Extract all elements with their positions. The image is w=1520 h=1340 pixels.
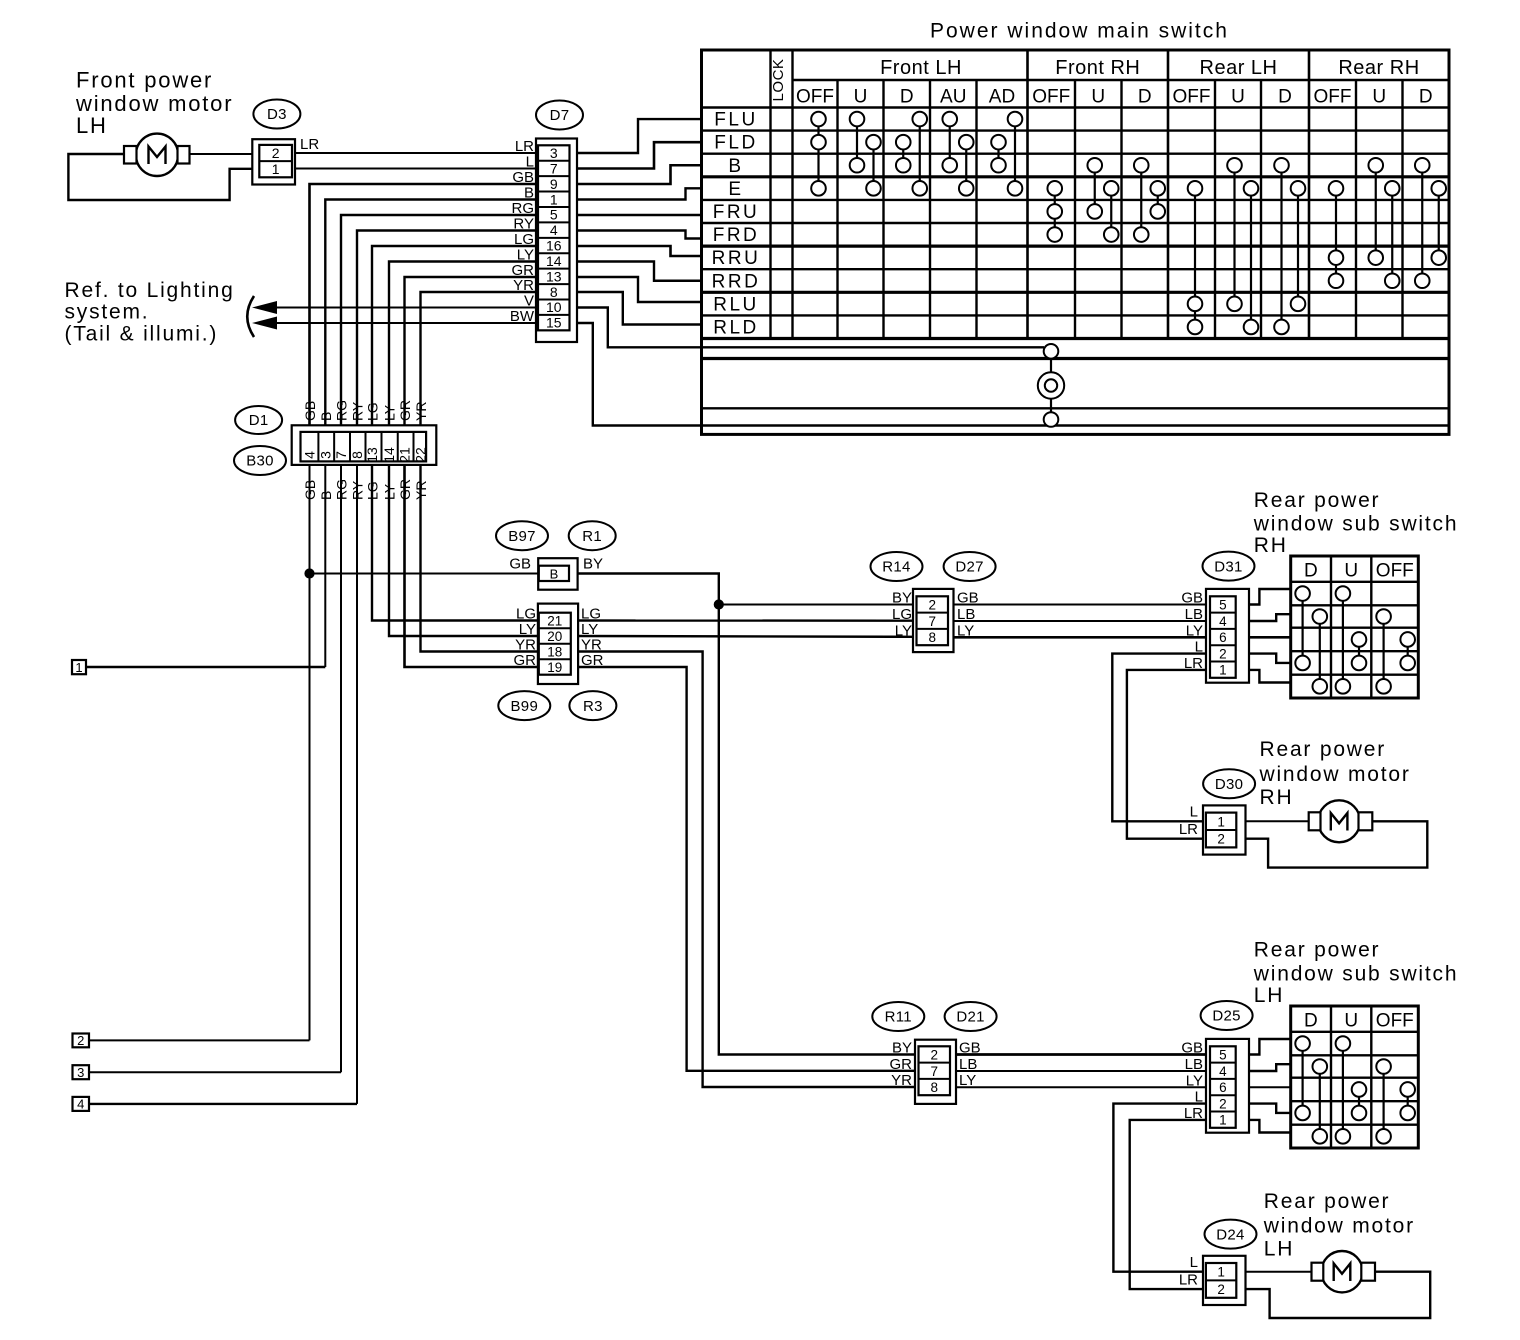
connector B99/R3 oval labels (498, 691, 550, 720)
wire LY D7 pin14 to RRD row (577, 262, 702, 281)
junction dot GB at B97 branch (305, 569, 314, 578)
wire GB R11 pin2 to D25 pin5 (956, 1053, 1206, 1056)
wire BY B97 to junction at R14 branch (578, 574, 915, 1055)
contacts Rear LH OFF (1194, 188, 1196, 327)
wire LB R11 pin7 to D25 pin4 (956, 1070, 1206, 1072)
svg-text:B: B (728, 156, 743, 177)
svg-text:YR: YR (581, 637, 602, 654)
wire LG D7 pin16 to RRU row (577, 246, 702, 256)
svg-text:1: 1 (1219, 663, 1227, 678)
connector B30 oval label (234, 446, 286, 475)
svg-text:FRD: FRD (713, 225, 760, 246)
connector D30 oval label (1203, 769, 1255, 798)
svg-text:D: D (900, 87, 914, 108)
svg-text:R11: R11 (885, 1009, 912, 1026)
svg-text:2: 2 (928, 597, 936, 612)
wire LR D25 pin1 to sub switch LH (1249, 1120, 1291, 1133)
contacts Front LH U left (856, 119, 858, 165)
svg-text:LY: LY (382, 404, 398, 421)
svg-text:D: D (1138, 87, 1152, 108)
wire terminal 3 to riser RG (89, 1071, 341, 1073)
svg-text:YR: YR (515, 637, 536, 654)
svg-text:LH: LH (1264, 1238, 1294, 1261)
svg-text:LR: LR (1184, 1105, 1203, 1122)
contacts Front RH U left (1094, 165, 1096, 211)
svg-text:2: 2 (272, 145, 280, 161)
svg-text:OFF: OFF (1173, 87, 1211, 108)
svg-text:8: 8 (930, 1080, 938, 1095)
svg-text:D: D (1304, 561, 1318, 582)
svg-text:BW: BW (510, 308, 535, 325)
svg-text:YR: YR (891, 1072, 912, 1089)
svg-text:GB: GB (957, 590, 979, 607)
svg-text:V: V (524, 293, 534, 310)
svg-text:LY: LY (517, 247, 534, 264)
svg-text:Rear LH: Rear LH (1200, 57, 1278, 79)
wire front motor to D3 pin2 (189, 153, 252, 155)
wire front motor return loop to D3 pin1 (68, 154, 252, 200)
contacts Front RH D left (1140, 165, 1142, 234)
svg-text:4: 4 (1219, 614, 1227, 629)
svg-text:L: L (1195, 639, 1203, 656)
connector D1/B30 body (292, 425, 437, 465)
svg-text:LY: LY (959, 1072, 976, 1089)
wire BW power rail inside table (702, 424, 1450, 426)
connector D31 oval label (1203, 552, 1255, 581)
svg-text:GR: GR (514, 652, 537, 669)
contacts rear RH U right (1358, 639, 1360, 663)
svg-text:RY: RY (513, 216, 534, 233)
svg-text:7: 7 (928, 614, 936, 629)
svg-text:GB: GB (1181, 1040, 1203, 1057)
connector D3 body (252, 139, 295, 184)
svg-text:B: B (524, 185, 534, 202)
main switch table outer frame (702, 50, 1450, 434)
svg-text:LY: LY (581, 621, 598, 638)
arrow to lighting system BW wire (252, 317, 277, 330)
svg-text:5: 5 (1219, 1047, 1227, 1062)
connector D7 oval label (536, 101, 583, 130)
contacts Front LH D right (919, 119, 921, 188)
contacts Rear LH U left (1233, 165, 1235, 304)
svg-text:GB: GB (959, 1040, 981, 1057)
terminal 1 box (72, 660, 86, 674)
svg-text:window sub switch: window sub switch (1253, 963, 1459, 986)
connector R14 body (913, 589, 954, 652)
svg-text:D: D (1278, 87, 1292, 108)
svg-text:D25: D25 (1212, 1008, 1240, 1025)
svg-text:3: 3 (317, 451, 333, 459)
svg-text:5: 5 (1219, 597, 1227, 612)
svg-text:U: U (1231, 87, 1245, 108)
svg-text:GR: GR (890, 1056, 913, 1073)
contacts Front RH U right (1110, 188, 1112, 234)
wire L D3 pin1 to D7 pin7 (295, 168, 536, 170)
svg-text:13: 13 (364, 447, 380, 463)
connector D31 body (1206, 589, 1249, 683)
svg-text:1: 1 (550, 191, 558, 207)
svg-text:AU: AU (940, 87, 966, 108)
svg-text:LH: LH (76, 113, 108, 138)
svg-text:D24: D24 (1216, 1226, 1244, 1243)
svg-text:RG: RG (334, 479, 350, 500)
svg-text:2: 2 (1219, 646, 1227, 661)
contacts rear LH D right (1319, 1067, 1321, 1137)
wire BW D7 pin15 to power rail row (577, 323, 702, 426)
svg-text:14: 14 (381, 447, 397, 463)
svg-text:AD: AD (989, 87, 1015, 108)
svg-text:B: B (318, 412, 334, 421)
svg-text:6: 6 (1219, 1080, 1227, 1095)
svg-text:LY: LY (519, 621, 536, 638)
motor M rear RH (1318, 800, 1360, 842)
svg-text:OFF: OFF (796, 87, 834, 108)
lock switch contact chain (1050, 351, 1052, 425)
svg-text:GR: GR (397, 400, 413, 421)
svg-text:3: 3 (77, 1065, 84, 1080)
wire GB junction to B97 (310, 573, 539, 575)
svg-text:RH: RH (1260, 786, 1294, 809)
wire GB D25 pin5 to sub switch LH (1249, 1039, 1291, 1055)
contacts rear LH U left (1342, 1044, 1344, 1137)
contacts rear RH D right (1319, 617, 1321, 687)
svg-text:2: 2 (77, 1033, 84, 1048)
svg-text:RG: RG (334, 400, 350, 421)
wire L D24 pin1 to D25 pin2 (1113, 1104, 1206, 1272)
svg-text:B30: B30 (246, 453, 274, 470)
svg-text:16: 16 (546, 238, 562, 254)
svg-text:YR: YR (413, 402, 429, 421)
wire B D7 pin1 to E row (577, 188, 702, 199)
svg-text:3: 3 (550, 145, 558, 161)
svg-text:LB: LB (1185, 1056, 1203, 1073)
wire L D24 pin1 to motor LH (1246, 1271, 1312, 1273)
contacts Rear RH U right (1391, 188, 1393, 280)
svg-text:1: 1 (272, 161, 280, 177)
wire terminal 4 to riser RY (89, 1103, 357, 1105)
svg-text:GB: GB (1181, 590, 1203, 607)
wire GB D7 pin9 to D1 pin4 riser (310, 184, 537, 425)
contacts Rear LH D left (1280, 165, 1282, 327)
wire RG D7 pin5 to FRU row (577, 214, 702, 216)
svg-text:OFF: OFF (1314, 87, 1352, 108)
svg-text:8: 8 (550, 284, 558, 300)
svg-text:B: B (318, 491, 334, 500)
wire RG D7 pin5 to D1 pin7 riser (341, 215, 536, 425)
svg-text:Rear power: Rear power (1254, 939, 1381, 962)
wire terminal 1 to riser B (86, 666, 325, 668)
wire LR D24 pin2 to D25 pin1 (1130, 1120, 1206, 1289)
svg-text:Ref. to Lighting: Ref. to Lighting (65, 279, 235, 302)
svg-text:GB: GB (512, 169, 534, 186)
wire L D25 pin2 to sub switch LH (1249, 1104, 1291, 1113)
lighting system brace (247, 296, 254, 337)
svg-text:21: 21 (397, 447, 413, 463)
riser RY from B30 pin8 to terminal 4 (356, 465, 358, 1104)
svg-text:RY: RY (350, 480, 366, 500)
wire GR B99 pin19 to R11 pin7 (578, 667, 915, 1071)
contacts Front RH D right (1157, 188, 1159, 211)
svg-text:LY: LY (382, 483, 398, 500)
svg-text:LY: LY (957, 622, 974, 639)
contacts Front RH OFF (1054, 188, 1056, 234)
wire LR D24 pin2 motor LH return loop (1246, 1272, 1431, 1318)
wire LY B99 pin20 to R14 pin8 (578, 635, 915, 638)
svg-text:4: 4 (302, 451, 318, 459)
svg-text:LG: LG (365, 481, 381, 500)
junction dot BY at R14 branch (714, 600, 723, 609)
connector D25 oval label (1201, 1001, 1253, 1030)
wire LY B30 pin14 to B99 pin20 (389, 465, 538, 636)
svg-text:RG: RG (512, 200, 535, 217)
wire YR B99 pin18 to R11 pin8 (578, 652, 915, 1088)
contacts Front LH AU right (965, 142, 967, 188)
wire LY D25 pin6 to sub switch LH (1249, 1086, 1291, 1088)
svg-text:D1: D1 (249, 412, 269, 429)
contacts rear LH U right (1358, 1089, 1360, 1113)
svg-text:9: 9 (550, 176, 558, 192)
svg-text:1: 1 (75, 660, 82, 675)
svg-text:RLU: RLU (713, 294, 759, 315)
svg-text:U: U (854, 87, 868, 108)
svg-text:BY: BY (583, 556, 603, 573)
wire LY R14 pin8 to D31 pin6 (954, 636, 1207, 639)
contacts rear LH D left (1301, 1044, 1303, 1113)
svg-text:LY: LY (895, 622, 912, 639)
svg-text:window motor: window motor (1263, 1215, 1415, 1238)
wire LB D31 pin4 to sub switch RH (1249, 614, 1291, 621)
svg-text:D: D (1419, 87, 1433, 108)
svg-text:18: 18 (547, 644, 562, 659)
svg-text:GB: GB (302, 480, 318, 500)
arrow to lighting system V wire (252, 301, 277, 314)
svg-text:LG: LG (892, 606, 912, 623)
svg-text:4: 4 (1219, 1064, 1227, 1079)
main switch table vertical grid lines (769, 50, 771, 339)
svg-text:LH: LH (1254, 984, 1284, 1007)
wire LG D7 pin16 to D1 pin13 riser (372, 246, 536, 425)
connector D24 oval label (1205, 1220, 1257, 1249)
svg-text:20: 20 (547, 629, 562, 644)
svg-text:LB: LB (957, 606, 975, 623)
wire LY R11 pin8 to D25 pin6 (956, 1086, 1206, 1088)
connector D3 oval label (253, 100, 300, 129)
svg-text:B99: B99 (511, 698, 539, 715)
wire LR D3 pin2 to D7 pin3 (295, 152, 536, 154)
wire GB D31 pin5 to sub switch RH (1249, 589, 1291, 605)
svg-text:19: 19 (547, 660, 562, 675)
svg-text:LR: LR (1179, 1272, 1198, 1289)
svg-text:1: 1 (1217, 814, 1225, 829)
wire GR B30 pin21 to B99 pin19 (405, 465, 539, 667)
svg-text:Rear power: Rear power (1254, 489, 1381, 512)
connector B99 body (538, 604, 578, 684)
wire LR D30 pin2 motor RH return loop (1246, 821, 1428, 867)
svg-text:RRD: RRD (712, 271, 761, 292)
wire V inside table to lock contact (702, 346, 1045, 348)
wire YR D7 pin8 to D1 pin22 riser (421, 292, 537, 425)
wire GR D7 pin13 to D1 pin21 riser (405, 277, 537, 425)
svg-text:Front LH: Front LH (880, 57, 962, 79)
svg-text:LG: LG (514, 231, 534, 248)
contacts rear LH OFF left (1382, 1067, 1384, 1137)
wire LY D31 pin6 to sub switch RH (1249, 636, 1291, 639)
svg-text:window motor: window motor (1259, 763, 1411, 786)
contacts rear RH OFF left (1382, 617, 1384, 687)
svg-text:GB: GB (302, 401, 318, 421)
svg-text:Front RH: Front RH (1055, 57, 1140, 79)
svg-text:Rear power: Rear power (1260, 738, 1387, 761)
wire terminal 2 to riser GB (89, 1039, 310, 1041)
terminal 4 box (73, 1097, 90, 1111)
svg-text:5: 5 (550, 207, 558, 223)
wire RY D7 pin4 to D1 pin8 riser (357, 231, 536, 426)
connector R14/D27 oval labels (871, 552, 923, 581)
svg-text:LR: LR (300, 136, 319, 153)
connector R11/D21 oval labels (872, 1002, 924, 1031)
svg-text:LB: LB (959, 1056, 977, 1073)
connector B97/R1 oval labels (496, 521, 548, 550)
connector D25 body (1206, 1039, 1249, 1133)
svg-text:8: 8 (928, 630, 936, 645)
wire LB R14 pin7 to D31 pin4 (954, 620, 1207, 622)
svg-text:7: 7 (930, 1064, 938, 1079)
svg-text:window sub switch: window sub switch (1253, 513, 1459, 536)
contacts Front LH U right (872, 142, 874, 188)
wire BY junction to R14 pin2 (719, 604, 915, 606)
svg-text:2: 2 (1219, 1096, 1227, 1111)
wire BW D7 pin15 to lighting system arrow (261, 322, 536, 324)
wire LR D31 pin1 to sub switch RH (1249, 670, 1291, 683)
contacts Front LH AU left (949, 119, 951, 165)
wire GR D7 pin13 to RLU row (577, 277, 702, 302)
svg-text:R1: R1 (582, 528, 602, 545)
connector D24 body (1203, 1256, 1246, 1305)
wire B D7 pin1 to D1 pin3 riser (325, 200, 536, 426)
svg-text:FRU: FRU (713, 202, 760, 223)
svg-text:GR: GR (397, 479, 413, 500)
svg-text:D30: D30 (1215, 776, 1243, 793)
contacts rear LH OFF right (1407, 1089, 1409, 1113)
wire V D7 pin10 to lock row (577, 308, 702, 348)
wire LR D7 pin3 to FLU row (577, 119, 702, 153)
connector R11 body (915, 1040, 956, 1104)
svg-text:U: U (1344, 1011, 1358, 1032)
svg-text:BY: BY (892, 590, 912, 607)
svg-text:D31: D31 (1214, 558, 1242, 575)
svg-text:4: 4 (77, 1097, 84, 1112)
svg-text:RRU: RRU (712, 248, 761, 269)
sub switch rear RH table grid (1291, 556, 1419, 698)
svg-text:7: 7 (333, 451, 349, 459)
svg-text:LOCK: LOCK (770, 59, 787, 102)
riser RG from B30 pin7 to terminal 3 (340, 465, 342, 1072)
contacts Rear LH D right (1297, 188, 1299, 304)
terminal 2 box (73, 1034, 90, 1048)
svg-text:OFF: OFF (1376, 1011, 1414, 1032)
motor M front LH (136, 134, 178, 176)
contacts rear RH D left (1301, 594, 1303, 663)
svg-text:D21: D21 (956, 1009, 984, 1026)
svg-text:6: 6 (1219, 630, 1227, 645)
wire L D7 pin7 to FLD row (577, 142, 702, 168)
svg-text:RH: RH (1254, 534, 1288, 557)
svg-text:(Tail & illumi.): (Tail & illumi.) (65, 323, 219, 346)
contacts Rear RH U left (1375, 165, 1377, 257)
svg-text:2: 2 (1217, 832, 1225, 847)
svg-text:YR: YR (413, 481, 429, 500)
sub switch rear LH table grid (1291, 1006, 1419, 1148)
contacts Rear LH U right (1250, 188, 1252, 327)
wire LG B30 pin13 to B99 pin21 (372, 465, 538, 621)
svg-text:RLD: RLD (713, 317, 759, 338)
contacts rear RH OFF right (1407, 639, 1409, 663)
contacts rear RH U left (1342, 594, 1344, 687)
contacts Rear RH D right (1438, 188, 1440, 257)
svg-text:D7: D7 (550, 107, 570, 124)
svg-text:2: 2 (1217, 1282, 1225, 1297)
wire GB R14 pin2 to D31 pin5 (954, 604, 1207, 606)
svg-text:Rear power: Rear power (1264, 1190, 1391, 1213)
wire LR D30 pin2 to D31 pin1 (1127, 670, 1206, 839)
svg-text:U: U (1344, 561, 1358, 582)
svg-text:Rear RH: Rear RH (1338, 57, 1419, 79)
wire LB D25 pin4 to sub switch LH (1249, 1064, 1291, 1071)
svg-text:15: 15 (546, 315, 562, 331)
svg-text:10: 10 (546, 299, 562, 315)
svg-text:7: 7 (550, 160, 558, 176)
wire L D31 pin2 to sub switch RH (1249, 654, 1291, 663)
svg-text:GR: GR (581, 652, 604, 669)
wire LG B99 pin21 to R14 pin7 (578, 619, 915, 622)
svg-text:OFF: OFF (1032, 87, 1070, 108)
svg-text:L: L (1190, 1254, 1198, 1271)
svg-text:R3: R3 (583, 698, 603, 715)
svg-text:Front power: Front power (76, 68, 213, 93)
svg-text:B97: B97 (508, 528, 536, 545)
riser B from B30 pin3 to terminal 1 wire (324, 465, 326, 667)
svg-text:U: U (1372, 87, 1386, 108)
svg-text:14: 14 (546, 253, 562, 269)
svg-text:FLU: FLU (714, 110, 757, 131)
riser GB from B30 pin4 to joint and terminal 2 (309, 465, 311, 1041)
svg-text:FLD: FLD (714, 133, 757, 154)
wire L D30 pin1 to motor RH (1246, 820, 1309, 822)
connector B97/R1 body (538, 558, 577, 590)
wire RY D7 pin4 to FRD row (577, 231, 702, 239)
svg-text:LG: LG (365, 402, 381, 421)
svg-text:LR: LR (1179, 821, 1198, 838)
connector D30 body (1203, 805, 1246, 854)
contacts Front LH AD right (1014, 119, 1016, 188)
svg-text:U: U (1091, 87, 1105, 108)
wire GB D7 pin9 to B row (577, 165, 702, 184)
svg-text:LY: LY (1186, 622, 1203, 639)
svg-text:22: 22 (413, 447, 429, 463)
svg-text:Power window main switch: Power window main switch (930, 20, 1229, 43)
svg-text:YR: YR (513, 277, 534, 294)
wire LY D7 pin14 to D1 pin14 riser (389, 262, 536, 426)
svg-text:B: B (550, 567, 559, 582)
wire V D7 pin10 to lighting system arrow (261, 307, 536, 309)
svg-text:E: E (728, 179, 743, 200)
contacts Rear RH D left (1421, 165, 1423, 281)
svg-text:L: L (1190, 804, 1198, 821)
svg-text:13: 13 (546, 268, 562, 284)
svg-text:8: 8 (349, 451, 365, 459)
svg-text:GB: GB (509, 556, 531, 573)
terminal 3 box (73, 1065, 90, 1079)
